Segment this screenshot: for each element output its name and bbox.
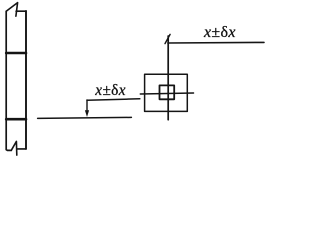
sight line through instrument [140,93,193,94]
upper sight line to the right [168,41,264,44]
staff bottom break zigzag [11,141,16,155]
tick mark at top of axis [165,34,170,43]
svg-text:x±δx: x±δx [94,82,126,99]
svg-text:x±δx: x±δx [203,24,236,41]
staff upper reading mark [6,52,26,55]
instrument inner square (telescope) [160,85,175,99]
arrowhead of leader [85,110,89,117]
leader horizontal from arrow [87,99,140,100]
lower sight line (ground line) [38,117,132,118]
staff top break zigzag [6,3,17,17]
leader vertical with arrow [86,100,88,111]
staff top edge [16,10,26,12]
instrument outer square body [145,74,188,111]
plumb/axis vertical line [167,36,169,120]
staff left edge [6,11,11,150]
staff bottom edge right part [18,148,26,150]
staff right edge [25,11,27,149]
staff lower reading mark [6,118,26,121]
